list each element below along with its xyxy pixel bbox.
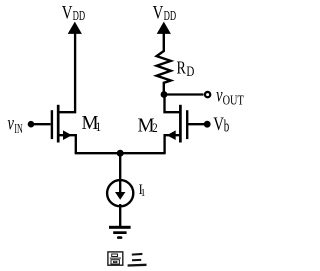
svg-text:IN: IN xyxy=(14,122,22,137)
svg-text:V: V xyxy=(62,2,73,23)
svg-text:v: v xyxy=(216,83,223,106)
svg-text:V: V xyxy=(213,113,224,134)
svg-text:R: R xyxy=(177,59,187,78)
svg-text:v: v xyxy=(8,111,15,134)
svg-text:V: V xyxy=(153,2,164,23)
svg-text:2: 2 xyxy=(152,120,157,135)
svg-text:1: 1 xyxy=(96,119,101,134)
svg-text:1: 1 xyxy=(141,187,146,199)
svg-text:b: b xyxy=(224,118,230,137)
svg-text:OUT: OUT xyxy=(223,92,245,108)
svg-text:DD: DD xyxy=(164,8,177,24)
svg-text:D: D xyxy=(186,64,194,80)
svg-text:DD: DD xyxy=(73,8,86,24)
